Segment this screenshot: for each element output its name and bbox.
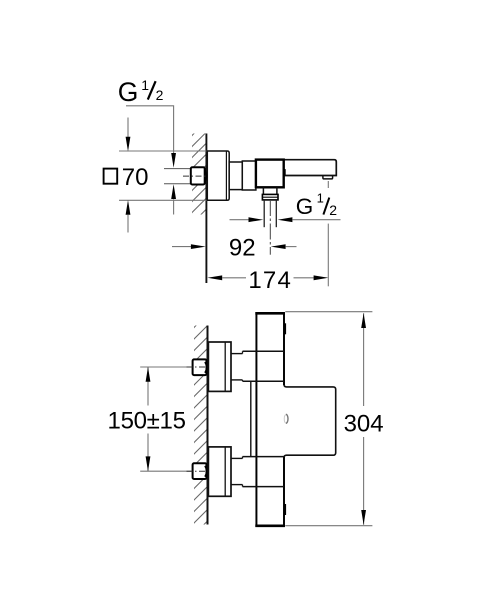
svg-text:92: 92 <box>229 235 256 262</box>
svg-text:G: G <box>296 194 314 219</box>
svg-text:174: 174 <box>248 267 292 294</box>
svg-text:G: G <box>118 77 139 107</box>
svg-text:150±15: 150±15 <box>108 408 186 435</box>
svg-text:304: 304 <box>344 411 384 438</box>
svg-text:1: 1 <box>317 191 324 206</box>
svg-text:2: 2 <box>329 202 337 218</box>
svg-text:1: 1 <box>141 77 149 93</box>
svg-text:70: 70 <box>122 164 149 191</box>
svg-text:2: 2 <box>156 87 164 103</box>
